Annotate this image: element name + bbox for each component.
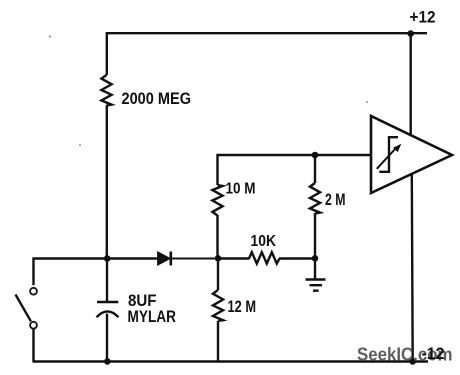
resistor R1 2000 MEG: [101, 75, 111, 106]
capacitor C1 curved plate: [97, 311, 119, 317]
wire: R5 bottom to bottom rail: [217, 321, 219, 362]
junction node A: [104, 255, 111, 262]
resistor R2 10 M: [212, 185, 222, 216]
junction node D (ground node): [312, 255, 319, 262]
wire: capacitor C1 to bottom rail: [106, 314, 108, 362]
switch S1 upper contact: [30, 288, 37, 295]
wire: diode D1 cathode to node B: [171, 258, 218, 260]
junction node B: [215, 255, 222, 262]
wire: node A down to capacitor C1: [106, 259, 108, 302]
svg-text:2 M: 2 M: [325, 190, 346, 209]
junction dot -12 supply at bottom rail: [409, 358, 416, 365]
wire: node A to diode D1 anode: [107, 257, 158, 259]
svg-text:2000 MEG: 2000 MEG: [122, 89, 192, 108]
junction dot +12 supply: [407, 30, 414, 37]
svg-text:+12: +12: [410, 8, 436, 27]
op-amp U1 body: [371, 116, 452, 193]
switch S1 blade: [16, 295, 31, 322]
wire: R3 bottom to node D: [314, 213, 316, 259]
wire: node B down to R5: [217, 259, 219, 291]
capacitor C1 top plate: [97, 301, 118, 304]
wire: R4 to node D: [279, 257, 315, 259]
junction node C: [312, 152, 319, 159]
svg-text:12 M: 12 M: [228, 297, 257, 316]
wire: node B up to R2: [216, 215, 218, 259]
ground symbol: [306, 259, 326, 291]
resistor R5 12 M: [213, 290, 223, 321]
svg-text:MYLAR: MYLAR: [128, 307, 177, 326]
wire: node A left to switch corner: [34, 259, 108, 286]
svg-text:-12: -12: [422, 344, 445, 363]
wire: +12 top rail with left corner drop: [107, 33, 427, 75]
resistor R3 2 M: [310, 183, 320, 214]
wire: switch lower contact to bottom rail: [32, 329, 34, 362]
svg-text:10K: 10K: [251, 233, 277, 250]
switch S1 lower contact: [30, 322, 37, 329]
wire: node C down to R3: [314, 155, 316, 183]
wire: bottom rail: [33, 360, 429, 362]
resistor R4 10K: [249, 252, 280, 263]
wire: node B to R4: [218, 257, 250, 259]
wire: R1 bottom to node A: [106, 105, 108, 259]
wire: R2 top to node C rail into op-amp input: [218, 155, 372, 185]
speck artifacts: [49, 36, 368, 146]
wire: op-amp V- down to bottom rail: [411, 175, 414, 362]
wire: op-amp V+ from top rail: [410, 34, 412, 137]
op-amp U1 threshold symbol with arrow: [377, 137, 402, 172]
diode D1: [158, 252, 171, 266]
svg-text:10 M: 10 M: [226, 181, 256, 198]
junction dot capacitor branch at bottom rail: [104, 358, 111, 365]
